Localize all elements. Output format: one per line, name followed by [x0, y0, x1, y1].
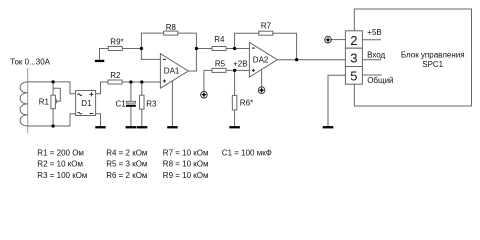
supply terminal +5V near R5 [201, 91, 208, 98]
ground bar for R3 [137, 126, 148, 128]
wire node D to DA2 non-inverting input [235, 69, 250, 71]
svg-text:DA1: DA1 [164, 67, 180, 76]
svg-text:Блок управления: Блок управления [401, 51, 465, 60]
wire node C to DA2 inverting input [235, 48, 250, 50]
wire R7 feedback loop left leg [235, 33, 259, 48]
transformer T1 secondary winding [20, 82, 28, 126]
node A: R9/R8/DA1 inverting input [140, 47, 143, 50]
svg-text:R1: R1 [39, 98, 50, 107]
wire R9 to node A [122, 48, 141, 50]
svg-text:R8 = 10 кОм: R8 = 10 кОм [163, 160, 209, 169]
wire R2 to DA1 plus input [122, 81, 160, 83]
ground bar for DA1 [167, 126, 178, 128]
resistor R4 body [212, 47, 226, 51]
svg-text:R3 = 100 кОм: R3 = 100 кОм [37, 171, 87, 180]
svg-text:R9*: R9* [110, 38, 123, 47]
wire R3 bottom lead [141, 109, 143, 126]
D1 top AC mark [78, 94, 82, 96]
rectifier D1 box [76, 91, 96, 116]
wire secondary top [28, 82, 76, 94]
wire node B to R4 [196, 48, 212, 50]
wire R4 to node C [226, 48, 235, 50]
svg-text:R4 = 2 кОм: R4 = 2 кОм [106, 149, 147, 158]
wire DA1 output [188, 49, 196, 72]
DA2 plus input mark [252, 69, 255, 72]
capacitor C1 plus plate [126, 101, 135, 103]
supply terminal +5V at pin 2 [325, 36, 332, 43]
svg-text:SPC1: SPC1 [422, 60, 443, 69]
svg-text:Вход: Вход [367, 50, 385, 59]
ground bar for R9 [95, 60, 104, 62]
ground bar for pin 5 [323, 126, 334, 128]
resistor R5 body [212, 68, 226, 72]
svg-text:C1: C1 [116, 99, 127, 108]
resistor R7 body [259, 31, 273, 35]
node D: R5/R6 +2V junction [233, 69, 236, 72]
D1 plus mark [89, 92, 93, 96]
svg-text:DA2: DA2 [253, 55, 269, 64]
resistor R8 body [164, 31, 178, 35]
wire pin 3 stub inside block [362, 59, 381, 61]
wire D1 plus output [96, 82, 108, 94]
wire +5V terminal to R5 [204, 70, 212, 91]
D1 bottom AC mark [78, 112, 82, 114]
wire pin 2 stub inside block [362, 39, 381, 41]
node: R1 top junction [51, 80, 54, 83]
svg-text:R6*: R6* [240, 99, 253, 108]
ground bar for D1 minus [95, 126, 105, 128]
connector pin 5 box [345, 67, 362, 85]
node: R3 junction [140, 80, 143, 83]
svg-text:D1: D1 [81, 99, 92, 108]
svg-text:R6 = 2 кОм: R6 = 2 кОм [106, 171, 147, 180]
wire R7 feedback loop right leg [273, 33, 297, 60]
DA1 plus input mark [163, 80, 166, 83]
wire R8 feedback loop right leg [178, 33, 197, 48]
wire R1 bottom lead [52, 109, 54, 126]
wire C1 bottom lead [130, 107, 132, 127]
svg-text:R2 = 10 кОм: R2 = 10 кОм [37, 160, 83, 169]
wire primary conductor [27, 68, 29, 133]
resistor R2 body [108, 80, 122, 84]
wire D1 minus to ground [96, 114, 101, 126]
wire R9 ground stub [100, 49, 109, 60]
wire DA1 inverting input [141, 49, 160, 60]
ground bar for C1 [126, 126, 137, 128]
block SPC1 outline [354, 9, 471, 106]
wire secondary bottom [28, 114, 76, 126]
svg-text:R2: R2 [110, 71, 121, 80]
svg-text:2: 2 [350, 33, 357, 48]
svg-text:R7: R7 [261, 22, 272, 31]
svg-text:+2В: +2В [233, 59, 247, 68]
wire DA2 output to pin 3 [277, 59, 345, 61]
wire pin 5 to ground [328, 75, 345, 126]
node: C1 junction [129, 80, 132, 83]
node: R1 bottom junction [51, 124, 54, 127]
wire R8 feedback loop left leg [141, 33, 163, 48]
op-amp DA2 [249, 42, 277, 77]
svg-text:R9 = 10 кОм: R9 = 10 кОм [163, 171, 209, 180]
svg-text:3: 3 [350, 51, 357, 66]
capacitor C1 minus plate [126, 105, 136, 107]
supply terminal for DA2 [258, 87, 265, 94]
wire DA2 supply pin [261, 69, 263, 86]
wire +5V terminal to pin 2 [331, 39, 345, 41]
R1 trimmer tap [53, 88, 60, 103]
svg-text:+5В: +5В [367, 28, 381, 37]
svg-text:R4: R4 [214, 35, 225, 44]
node E: DA2 output junction [295, 58, 298, 61]
D1 minus mark [90, 113, 94, 115]
connector pin 2 box [345, 31, 362, 48]
node C: R4/R7 junction [233, 47, 236, 50]
ground bar for R6 [229, 126, 240, 128]
wire R6 bottom lead [234, 110, 236, 126]
svg-text:R3: R3 [146, 99, 157, 108]
svg-text:R7 = 10 кОм: R7 = 10 кОм [163, 149, 209, 158]
node B: DA1 output [195, 47, 198, 50]
wire DA1 ground pin [171, 81, 173, 126]
resistor R6 body [232, 95, 237, 110]
svg-text:Общий: Общий [367, 76, 393, 85]
svg-text:R5 = 3 кОм: R5 = 3 кОм [106, 160, 147, 169]
svg-text:R5: R5 [215, 59, 226, 68]
wire pin 5 stub inside block [362, 74, 381, 76]
svg-text:5: 5 [350, 69, 357, 84]
wire R6 top lead [234, 70, 236, 95]
DA1 minus input mark [163, 58, 166, 60]
resistor R3 body [140, 95, 145, 109]
svg-text:R1 = 200 Ом: R1 = 200 Ом [37, 149, 84, 158]
svg-text:Ток 0...30А: Ток 0...30А [10, 57, 50, 66]
wire R1 top lead [52, 82, 54, 95]
resistor R9 body [108, 47, 122, 51]
svg-text:C1 = 100 мкФ: C1 = 100 мкФ [222, 149, 272, 158]
connector pin 3 box [345, 48, 362, 66]
wire C1 top lead [130, 82, 132, 101]
svg-text:R8: R8 [166, 23, 177, 32]
resistor R1 (trimmer) body [51, 95, 56, 109]
wire R5 to node D [226, 69, 235, 71]
wire R3 top lead [141, 82, 143, 95]
op-amp DA1 [160, 54, 188, 88]
DA2 minus input mark [252, 47, 255, 49]
